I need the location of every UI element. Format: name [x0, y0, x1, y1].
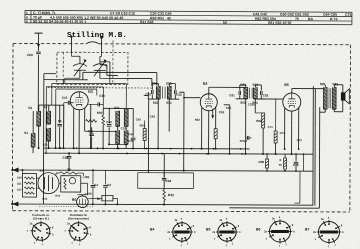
svg-text:C72: C72 — [297, 138, 303, 142]
svg-text:C50 C52 C61 C62: C50 C52 C61 C62 — [280, 12, 309, 16]
battery terminal negative — [12, 201, 18, 206]
svg-text:R10: R10 — [55, 194, 60, 198]
svg-text:B5: B5 — [284, 83, 289, 87]
speaker — [341, 89, 349, 104]
svg-text:+185: +185 — [82, 175, 89, 179]
dropper wires mid — [147, 99, 149, 172]
capacitor C10 grid — [68, 101, 70, 105]
svg-text:R36: R36 — [259, 160, 265, 164]
tube socket base 2 — [70, 223, 88, 241]
tube socket base 5 — [270, 221, 291, 242]
svg-text:C63: C63 — [226, 106, 232, 110]
svg-text:B5: B5 — [206, 228, 210, 232]
wire B5 plate to output transformer — [291, 89, 293, 93]
svg-text:C75: C75 — [345, 13, 352, 17]
wires battery to vibrator — [36, 177, 39, 179]
left vertical wires — [55, 105, 57, 148]
tube socket base 4 — [218, 223, 236, 241]
svg-text:R 73: R 73 — [330, 17, 338, 21]
coil S34 — [116, 130, 120, 144]
HT bus — [44, 153, 313, 154]
variable capacitor C9 section 2 — [93, 56, 107, 78]
dashed chassis/case border — [12, 42, 350, 212]
primary bottom wire — [324, 109, 326, 112]
svg-text:53: 53 — [223, 21, 227, 25]
svg-text:B6: B6 — [72, 198, 76, 202]
IF1 core — [161, 87, 163, 99]
wire under gang — [56, 88, 97, 90]
svg-text:C30: C30 — [99, 94, 105, 98]
bus junction dots — [126, 153, 128, 155]
vibrator circle — [38, 173, 59, 194]
wire top B3 grid stub — [62, 80, 64, 84]
svg-text:S61 S63 40 50: S61 S63 40 50 — [268, 21, 292, 25]
dial indicator stub right — [100, 37, 102, 52]
B5 pin wires — [284, 108, 286, 149]
svg-text:C71: C71 — [268, 125, 274, 129]
svg-text:C10: C10 — [62, 96, 68, 100]
resistor R53 cathode — [214, 129, 217, 139]
speaker wires — [333, 85, 335, 87]
svg-text:C43: C43 — [128, 139, 134, 143]
secondary bottom wire — [229, 207, 319, 209]
svg-text:S4: S4 — [43, 105, 47, 109]
shield box around C64 — [138, 173, 194, 189]
battery terminal positive — [13, 167, 19, 172]
svg-text:Stilling M.B.: Stilling M.B. — [67, 32, 127, 40]
wire vibrator output — [59, 182, 61, 184]
svg-text:C60: C60 — [27, 53, 33, 57]
svg-text:S12: S12 — [17, 188, 22, 192]
gang top connection wires — [70, 52, 72, 56]
IF1 wires — [157, 84, 159, 86]
gang bottom wires — [65, 77, 80, 79]
chassis bottom rail — [12, 204, 312, 205]
svg-text:C33: C33 — [121, 126, 127, 130]
component value table — [25, 10, 352, 25]
gang dial link dashed — [112, 40, 114, 84]
chassis shield box right edge — [312, 86, 314, 205]
svg-text:20mA: 20mA — [240, 139, 248, 143]
svg-text:S14: S14 — [40, 169, 45, 173]
svg-text:C41 C42: C41 C42 — [253, 12, 267, 16]
tube socket base 3 — [173, 223, 191, 241]
svg-text:S52: S52 — [153, 101, 159, 105]
wire B4 screen — [224, 104, 230, 106]
wire gang to oscillator coil — [52, 82, 126, 84]
svg-text:S1: S1 — [24, 131, 28, 135]
svg-text:C: C — [26, 11, 28, 15]
fuse box with windings — [22, 174, 36, 198]
chassis shield box left edge — [42, 74, 45, 204]
coil S33 — [124, 109, 128, 127]
transformer core — [328, 88, 330, 108]
capacitor C67 — [247, 136, 249, 140]
tuning gang enclosure — [57, 52, 128, 84]
B4 pin wires — [201, 108, 203, 149]
wire B3 plate to IF1 — [82, 72, 84, 79]
wire IF1 to B4 grid — [184, 97, 200, 99]
svg-text:S10: S10 — [17, 176, 22, 180]
svg-text:S62: S62 — [240, 101, 246, 105]
svg-text:75: 75 — [295, 17, 299, 21]
svg-text:R30: R30 — [97, 111, 103, 115]
svg-text:C33a: C33a — [248, 102, 255, 106]
svg-text:+105: +105 — [85, 192, 92, 196]
svg-text:C7 C9 C10 C12: C7 C9 C10 C12 — [110, 11, 135, 15]
border connector bump — [86, 42, 99, 44]
svg-text:S82: S82 — [332, 82, 338, 86]
antenna terminal and lead-in — [35, 32, 43, 34]
svg-text:C52: C52 — [176, 93, 182, 97]
svg-text:C64 C65: C64 C65 — [323, 13, 337, 17]
svg-text:B7: B7 — [305, 228, 309, 232]
svg-text:C61: C61 — [229, 93, 235, 97]
svg-text:S31 S33: S31 S33 — [140, 20, 154, 24]
svg-text:75: 75 — [279, 163, 283, 167]
AVC dashed line — [48, 87, 152, 89]
wire IF2 to B5 grid — [255, 98, 283, 100]
coil S5 — [47, 128, 51, 141]
svg-text:S2: S2 — [28, 106, 32, 110]
B+ wire right side — [314, 89, 316, 206]
local wire osc — [103, 107, 133, 109]
svg-text:S31: S31 — [114, 106, 120, 110]
svg-text:C. Tl M(M). Tr.: C. Tl M(M). Tr. — [33, 11, 56, 15]
dotted mechanical link — [39, 206, 94, 208]
battery plus bus — [13, 170, 313, 171]
svg-text:C53: C53 — [219, 110, 225, 114]
svg-text:C45: C45 — [136, 117, 142, 121]
svg-text:C62: C62 — [263, 93, 269, 97]
svg-text:42: 42 — [167, 16, 171, 20]
B3 pin wires — [73, 108, 75, 148]
svg-text:B4: B4 — [203, 82, 208, 86]
svg-text:S81: S81 — [320, 82, 326, 86]
coil S35 — [124, 130, 128, 144]
svg-text:R62: R62 — [256, 119, 262, 123]
svg-text:R52: R52 — [195, 118, 201, 122]
wire gang to antenna coil — [46, 86, 103, 88]
svg-text:BA: BA — [308, 17, 314, 21]
wire right vertical — [303, 154, 305, 171]
svg-text:S30: S30 — [43, 143, 48, 147]
svg-text:S11: S11 — [17, 182, 22, 186]
AVC bus — [44, 147, 250, 150]
wire B4 plate to IF2 — [208, 87, 210, 93]
B4 cathode arrow — [212, 109, 214, 118]
svg-text:C30 C33 C40: C30 C33 C40 — [150, 12, 172, 16]
svg-text:S0 S1 S2 S4 S5 50 40 41 20 50: S0 S1 S2 S4 S5 50 40 41 20 50 1 — [33, 19, 86, 23]
capacitor C30 symbol — [98, 102, 100, 106]
dial indicator stub left — [70, 37, 72, 52]
svg-text:B4: B4 — [150, 228, 154, 232]
rectifier unit box — [61, 176, 81, 192]
variable capacitor C7 section 1 — [73, 56, 87, 78]
svg-text:R71: R71 — [280, 131, 286, 135]
IF2 core — [248, 88, 250, 98]
wire oscillator corner A — [100, 61, 110, 63]
svg-text:C42: C42 — [150, 115, 156, 119]
capacitor C43 — [131, 138, 136, 140]
resistor R31 — [86, 119, 97, 122]
svg-text:B6: B6 — [256, 228, 260, 232]
tube socket base 1 — [32, 223, 50, 241]
IF2 wires — [245, 85, 247, 87]
svg-text:B3: B3 — [88, 90, 93, 94]
svg-text:R42: R42 — [168, 193, 174, 197]
tube socket base 6 — [319, 222, 340, 243]
svg-text:R16: R16 — [42, 197, 47, 201]
grid resistor R63 — [274, 131, 277, 143]
svg-text:S: S — [26, 19, 28, 23]
wire oscillator corner B — [100, 64, 107, 66]
